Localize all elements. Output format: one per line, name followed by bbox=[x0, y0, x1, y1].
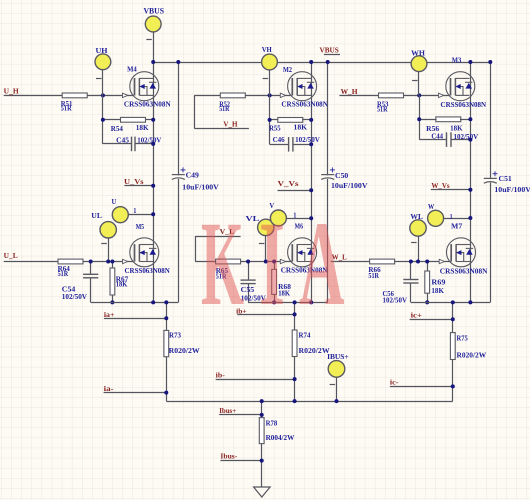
svg-text:W: W bbox=[428, 202, 435, 211]
svg-text:10uF/100V: 10uF/100V bbox=[331, 181, 368, 190]
svg-text:CRSS063N08N: CRSS063N08N bbox=[281, 100, 328, 109]
wire ia- stub bbox=[104, 392, 167, 394]
svg-text:I: I bbox=[259, 197, 285, 331]
junction cap row VH at column bbox=[309, 142, 313, 146]
gate arrow U high bbox=[123, 93, 128, 97]
junction R67 top bbox=[110, 260, 114, 264]
junction ib- bbox=[293, 377, 297, 381]
svg-text:ib-: ib- bbox=[216, 370, 226, 379]
junction V phase node bbox=[309, 216, 313, 220]
wire U_L input bbox=[4, 261, 58, 263]
svg-text:102/50V: 102/50V bbox=[62, 292, 88, 301]
junction VL at gate row bbox=[264, 260, 268, 264]
junction R74 at source rail bbox=[293, 300, 297, 304]
svg-text:C46: C46 bbox=[273, 135, 285, 144]
svg-text:C49: C49 bbox=[186, 170, 200, 179]
gate arrow W high bbox=[439, 93, 444, 97]
svg-text:CRSS063N08N: CRSS063N08N bbox=[124, 100, 172, 109]
wire C49 column bbox=[178, 62, 180, 302]
wire V_H routed stub bbox=[194, 128, 249, 130]
svg-text:M7: M7 bbox=[451, 222, 463, 231]
svg-text:10uF/100V: 10uF/100V bbox=[182, 182, 219, 191]
svg-text:51R: 51R bbox=[58, 269, 69, 278]
svg-text:102/50V: 102/50V bbox=[383, 296, 408, 305]
junction ia- bbox=[164, 391, 168, 395]
mosfet M3 symbol bbox=[446, 72, 475, 101]
junction R74 at bus bbox=[293, 399, 297, 403]
svg-text:51R: 51R bbox=[377, 105, 388, 114]
capacitor C55 gate-source low V bbox=[248, 262, 250, 281]
junction C49 at VBUS rail bbox=[176, 60, 180, 64]
resistor R75 shunt bbox=[450, 333, 455, 360]
wire ia+ stub bbox=[104, 318, 166, 320]
wire ib- stub bbox=[216, 379, 295, 381]
wire source rail low U bbox=[91, 302, 179, 304]
wire V_Vs stub bbox=[278, 190, 312, 192]
junction UL at gate row bbox=[106, 260, 110, 264]
svg-text:VBUS: VBUS bbox=[320, 45, 339, 54]
svg-text:10uF/100V: 10uF/100V bbox=[494, 185, 530, 194]
port UH bbox=[95, 54, 111, 70]
port IBUS+ bbox=[328, 361, 345, 378]
svg-text:18K: 18K bbox=[294, 123, 308, 132]
svg-text:UL: UL bbox=[91, 211, 102, 220]
junction IBUS+ at bus bbox=[335, 399, 339, 403]
port VH bbox=[262, 54, 278, 70]
svg-text:R74: R74 bbox=[299, 331, 311, 340]
wire U_Vs stub bbox=[124, 185, 153, 187]
svg-text:1: 1 bbox=[450, 212, 453, 221]
svg-text:C44: C44 bbox=[431, 132, 443, 141]
wire W_Vs stub bbox=[431, 189, 471, 191]
junction C50 at VBUS rail bbox=[326, 60, 330, 64]
svg-text:R75: R75 bbox=[457, 334, 469, 343]
svg-text:C51: C51 bbox=[499, 174, 513, 183]
svg-text:102/50V: 102/50V bbox=[454, 132, 479, 141]
wire C50 column bbox=[327, 62, 329, 302]
wire R51 to gate bbox=[87, 95, 134, 97]
wire W_H input bbox=[339, 95, 378, 97]
resistor R78 shunt bbox=[259, 418, 264, 444]
svg-text:ia-: ia- bbox=[104, 384, 115, 393]
capacitor gate-source UH bbox=[103, 143, 132, 145]
wire bottom bus bbox=[166, 401, 453, 403]
junction 18K row UH bbox=[101, 118, 105, 122]
svg-text:U: U bbox=[112, 197, 118, 206]
wire VBUS rail bbox=[153, 62, 490, 64]
svg-text:51R: 51R bbox=[219, 104, 230, 113]
junction W phase node bbox=[468, 216, 472, 220]
junction M7 source at rail bbox=[468, 300, 472, 304]
resistor R68 gate-source low V bbox=[274, 262, 276, 270]
gate arrow W low bbox=[439, 259, 444, 263]
wire VBUS port to rail bbox=[153, 32, 155, 62]
svg-text:18K: 18K bbox=[431, 286, 444, 295]
wire Ibus+ stub bbox=[219, 414, 262, 416]
wire W port to column bbox=[444, 218, 471, 220]
resistor R66 gate series low W bbox=[370, 259, 395, 264]
svg-text:ic+: ic+ bbox=[411, 311, 422, 320]
svg-text:VBUS: VBUS bbox=[144, 7, 165, 16]
svg-text:1: 1 bbox=[133, 206, 136, 215]
wire Ibus- stub bbox=[220, 460, 261, 462]
junction U phase node bbox=[151, 212, 155, 216]
junction V_Vs bbox=[309, 188, 313, 192]
KIA watermark bbox=[201, 197, 345, 331]
ground bbox=[254, 487, 271, 497]
port V phase output bbox=[270, 210, 286, 226]
svg-text:WH: WH bbox=[411, 48, 425, 57]
wire C51 column bbox=[490, 62, 492, 302]
resistor 18K gate-source UH bbox=[121, 117, 146, 122]
junction W_Vs bbox=[468, 188, 472, 192]
junction R69 bottom bbox=[425, 300, 429, 304]
svg-text:V_Vs: V_Vs bbox=[278, 179, 299, 188]
junction R67 bottom bbox=[110, 300, 114, 304]
wire R65 to gate of M6 bbox=[241, 261, 292, 263]
port UL bbox=[100, 222, 116, 238]
svg-text:R78: R78 bbox=[266, 419, 278, 428]
junction 18K row WH bbox=[417, 117, 421, 121]
wire UL port drop bbox=[108, 238, 110, 262]
port VBUS bbox=[145, 16, 161, 32]
wire R64 to gate of M5 bbox=[83, 261, 133, 263]
junction M6 source at rail bbox=[309, 300, 313, 304]
wire U port to column bbox=[128, 214, 153, 216]
svg-text:18K: 18K bbox=[136, 123, 149, 132]
resistor R51 gate series bbox=[62, 93, 87, 98]
wire gate node UH down bbox=[102, 95, 104, 143]
svg-text:M4: M4 bbox=[127, 65, 137, 74]
junction cap V low bbox=[246, 260, 250, 264]
svg-text:1: 1 bbox=[293, 211, 296, 220]
svg-text:ic-: ic- bbox=[390, 377, 399, 386]
wire V phase column (drain/source) bbox=[311, 62, 313, 302]
capacitor gate-source WH bbox=[419, 139, 446, 141]
wire W phase column (drain/source) bbox=[470, 62, 472, 302]
svg-text:51R: 51R bbox=[368, 271, 379, 280]
junction R68 top bbox=[272, 260, 276, 264]
resistor R69 gate-source low W bbox=[427, 262, 429, 272]
wire WL port drop bbox=[418, 236, 420, 261]
junction R78 at bus bbox=[260, 399, 264, 403]
wire R75 column bbox=[452, 302, 454, 401]
svg-text:A: A bbox=[299, 197, 345, 331]
svg-text:CRSS063N08N: CRSS063N08N bbox=[440, 266, 488, 275]
gate arrow V high bbox=[280, 93, 285, 97]
port U phase output bbox=[112, 207, 128, 223]
junction WL at gate row bbox=[416, 260, 420, 264]
wire gate node WH down bbox=[419, 95, 421, 139]
capacitor gate-source VH bbox=[270, 144, 289, 146]
junction cap W low bbox=[409, 260, 413, 264]
svg-text:R020/2W: R020/2W bbox=[169, 346, 201, 355]
wire WH port drop bbox=[418, 72, 420, 96]
wire R78 column bbox=[261, 401, 263, 487]
svg-text:CRSS063N08N: CRSS063N08N bbox=[125, 266, 171, 275]
svg-text:M2: M2 bbox=[283, 65, 292, 74]
mosfet M6 symbol bbox=[288, 238, 317, 267]
wire ib+ stub bbox=[237, 314, 294, 316]
mosfet M5 symbol bbox=[130, 238, 159, 267]
resistor R53 gate series bbox=[379, 93, 404, 98]
wire R52 to gate bbox=[245, 95, 291, 97]
junction cap row WH at column bbox=[468, 138, 472, 142]
junction W drain at VBUS rail bbox=[468, 60, 472, 64]
wire R66 to gate of M7 bbox=[395, 261, 451, 263]
svg-text:102/50V: 102/50V bbox=[295, 135, 321, 144]
svg-text:R020/2W: R020/2W bbox=[457, 351, 487, 360]
junction ia+ bbox=[164, 316, 168, 320]
wire R73 column bbox=[166, 302, 168, 401]
junction Ibus- bbox=[260, 459, 264, 463]
svg-text:U_L: U_L bbox=[4, 251, 18, 260]
resistor R67 gate-source low U bbox=[112, 262, 114, 269]
wire UH port drop bbox=[102, 70, 104, 96]
svg-text:102/50V: 102/50V bbox=[137, 136, 162, 145]
svg-text:V_H: V_H bbox=[223, 119, 237, 128]
capacitor C56 gate-source low W bbox=[410, 262, 412, 280]
svg-text:IBUS+: IBUS+ bbox=[327, 352, 349, 361]
svg-text:U_Vs: U_Vs bbox=[124, 177, 144, 186]
port WH bbox=[411, 56, 427, 72]
svg-text:C50: C50 bbox=[335, 171, 349, 180]
junction M5 source at rail bbox=[151, 300, 155, 304]
junction ib+ bbox=[293, 312, 297, 316]
svg-text:18K: 18K bbox=[116, 280, 128, 289]
mosfet M2 symbol bbox=[288, 72, 317, 101]
svg-text:K: K bbox=[201, 197, 244, 331]
junction Ibus+ bbox=[260, 413, 264, 417]
wire source rail low W bbox=[411, 302, 490, 304]
junction gate node WH bbox=[417, 93, 421, 97]
svg-text:C45: C45 bbox=[116, 136, 129, 145]
junction ic+ bbox=[451, 317, 455, 321]
wire IBUS+ drop bbox=[336, 377, 338, 401]
wire R74 column bbox=[294, 302, 296, 401]
mosfet M4 symbol bbox=[130, 72, 159, 101]
junction V drain at VBUS rail bbox=[309, 60, 313, 64]
svg-text:W_H: W_H bbox=[341, 87, 358, 96]
junction gate node UH bbox=[101, 93, 105, 97]
svg-text:R73: R73 bbox=[169, 331, 181, 340]
svg-text:Ibus-: Ibus- bbox=[220, 452, 237, 461]
gate arrow V low bbox=[280, 259, 285, 263]
svg-text:VH: VH bbox=[262, 45, 272, 54]
junction R73 at source rail bbox=[164, 300, 168, 304]
resistor R52 gate series bbox=[220, 93, 245, 98]
resistor R74 shunt bbox=[292, 330, 297, 357]
wire VH port drop bbox=[269, 70, 271, 96]
svg-text:WL: WL bbox=[410, 212, 423, 221]
junction gate node VH bbox=[268, 93, 272, 97]
svg-text:ia+: ia+ bbox=[104, 310, 115, 319]
resistor 18K gate-source VH bbox=[278, 118, 303, 123]
junction cap U low bbox=[89, 260, 93, 264]
svg-text:CRSS063N08N: CRSS063N08N bbox=[441, 100, 487, 109]
capacitor C51 10uF/100V bbox=[483, 179, 497, 182]
wire V_L routed stub bbox=[195, 236, 240, 238]
junction cap row UH at column bbox=[151, 142, 155, 146]
junction R68 bottom bbox=[272, 300, 276, 304]
resistor R73 shunt bbox=[164, 330, 169, 356]
svg-text:M3: M3 bbox=[452, 56, 462, 65]
svg-text:R54: R54 bbox=[111, 124, 123, 133]
mosfet M7 symbol bbox=[447, 238, 476, 267]
junction C51 at VBUS rail bbox=[488, 60, 492, 64]
svg-text:U_H: U_H bbox=[4, 87, 19, 96]
resistor 18K gate-source WH bbox=[436, 117, 461, 122]
wire U_H input bbox=[4, 95, 63, 97]
port W phase output bbox=[428, 210, 444, 226]
svg-text:UH: UH bbox=[96, 46, 108, 55]
svg-text:VL: VL bbox=[246, 214, 260, 223]
capacitor C49 10uF/100V bbox=[171, 175, 185, 178]
wire source rail low V bbox=[248, 302, 328, 304]
capacitor C50 10uF/100V bbox=[321, 175, 335, 178]
wire V port to column bbox=[286, 218, 311, 220]
resistor R64 gate series low U bbox=[58, 259, 83, 264]
wire gate node VH down bbox=[269, 95, 271, 144]
port WL bbox=[410, 220, 426, 236]
junction 18K row VH bbox=[268, 118, 272, 122]
wire R53 to gate bbox=[404, 95, 450, 97]
wire ic- stub bbox=[390, 386, 453, 388]
wire W_L input bbox=[331, 261, 370, 263]
capacitor C54 gate-source low U bbox=[90, 262, 92, 275]
svg-text:M5: M5 bbox=[136, 222, 145, 231]
wire VL port drop bbox=[265, 236, 267, 262]
resistor R65 gate series low V bbox=[216, 259, 241, 264]
junction R75 at source rail bbox=[451, 300, 455, 304]
svg-text:R020/2W: R020/2W bbox=[299, 346, 331, 355]
wire ic+ stub bbox=[410, 319, 453, 321]
junction U_Vs bbox=[151, 184, 155, 188]
junction U drain at VBUS rail bbox=[151, 60, 155, 64]
svg-text:R55: R55 bbox=[269, 124, 281, 133]
wire U phase column (drain/source) bbox=[153, 62, 155, 302]
svg-text:51R: 51R bbox=[61, 103, 72, 112]
svg-text:R004/2W: R004/2W bbox=[266, 433, 295, 442]
svg-text:W_Vs: W_Vs bbox=[431, 181, 449, 190]
junction ic- bbox=[451, 384, 455, 388]
junction R69 top bbox=[425, 260, 429, 264]
port VL bbox=[258, 219, 274, 235]
svg-text:Ibus+: Ibus+ bbox=[219, 406, 236, 415]
gate arrow U low bbox=[123, 259, 128, 263]
